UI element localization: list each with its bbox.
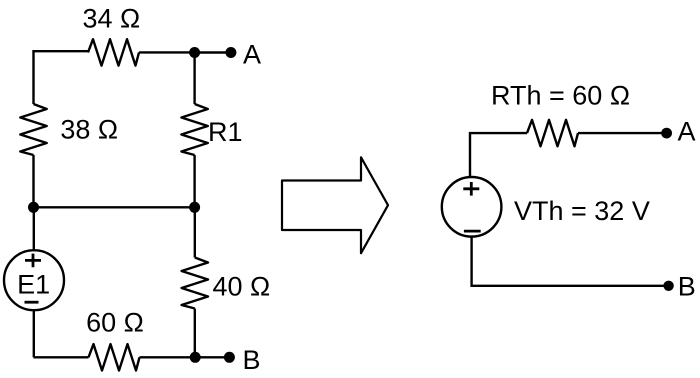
wire E1 to bottom	[33, 310, 35, 357]
terminal A node dot right	[661, 128, 672, 139]
terminal B node dot	[224, 352, 235, 363]
E1 plus sign	[25, 254, 41, 268]
VTh plus sign	[463, 182, 479, 196]
E1 minus sign	[25, 301, 39, 304]
wire thevenin top-left segment	[470, 133, 527, 177]
block arrow symbol	[282, 157, 388, 253]
voltage source VTh circle	[442, 177, 502, 237]
wire right rail middle	[193, 155, 195, 207]
wire left rail to E1	[33, 207, 35, 250]
svg-text:A: A	[243, 40, 261, 70]
node junction middle-left	[28, 202, 39, 213]
node junction top-right	[189, 47, 200, 58]
wire stub to terminal A	[195, 51, 231, 53]
svg-text:B: B	[678, 272, 696, 302]
resistor R1 zigzag	[181, 104, 207, 155]
resistor RTh zigzag	[527, 120, 578, 146]
svg-text:34 Ω: 34 Ω	[82, 4, 140, 34]
wire top-right segment	[139, 51, 195, 53]
svg-text:38 Ω: 38 Ω	[60, 114, 118, 144]
wire right rail upper	[193, 52, 195, 104]
voltage source E1 circle	[4, 250, 64, 310]
wire left rail lower	[32, 155, 34, 207]
VTh minus sign	[464, 230, 481, 233]
svg-text:A: A	[678, 116, 696, 146]
wire thevenin bottom	[472, 237, 669, 286]
wire right rail lower	[194, 207, 196, 257]
svg-text:RTh = 60 Ω: RTh = 60 Ω	[491, 80, 630, 110]
svg-text:40 Ω: 40 Ω	[213, 271, 271, 301]
svg-text:60 Ω: 60 Ω	[86, 308, 144, 338]
wire stub to terminal B	[195, 356, 229, 358]
node junction bottom-right	[190, 352, 201, 363]
svg-text:VTh = 32 V: VTh = 32 V	[514, 196, 650, 226]
resistor 34ohm zigzag	[88, 39, 139, 65]
wire bottom-right segment	[140, 356, 196, 358]
wire top-left segment	[34, 51, 89, 104]
wire middle horizontal	[34, 206, 195, 208]
resistor 40ohm zigzag	[182, 258, 208, 309]
wire thevenin top-right segment	[578, 132, 667, 134]
node junction middle-right	[189, 202, 200, 213]
svg-text:B: B	[243, 345, 261, 375]
resistor 60ohm zigzag	[89, 344, 140, 370]
svg-text:R1: R1	[208, 117, 243, 147]
wire bottom-left segment	[34, 356, 89, 358]
svg-text:E1: E1	[17, 270, 50, 300]
terminal B node dot right	[663, 281, 673, 291]
wire 40ohm to bottom	[194, 309, 196, 358]
resistor 38ohm zigzag	[20, 104, 46, 155]
terminal A node dot	[225, 47, 236, 58]
